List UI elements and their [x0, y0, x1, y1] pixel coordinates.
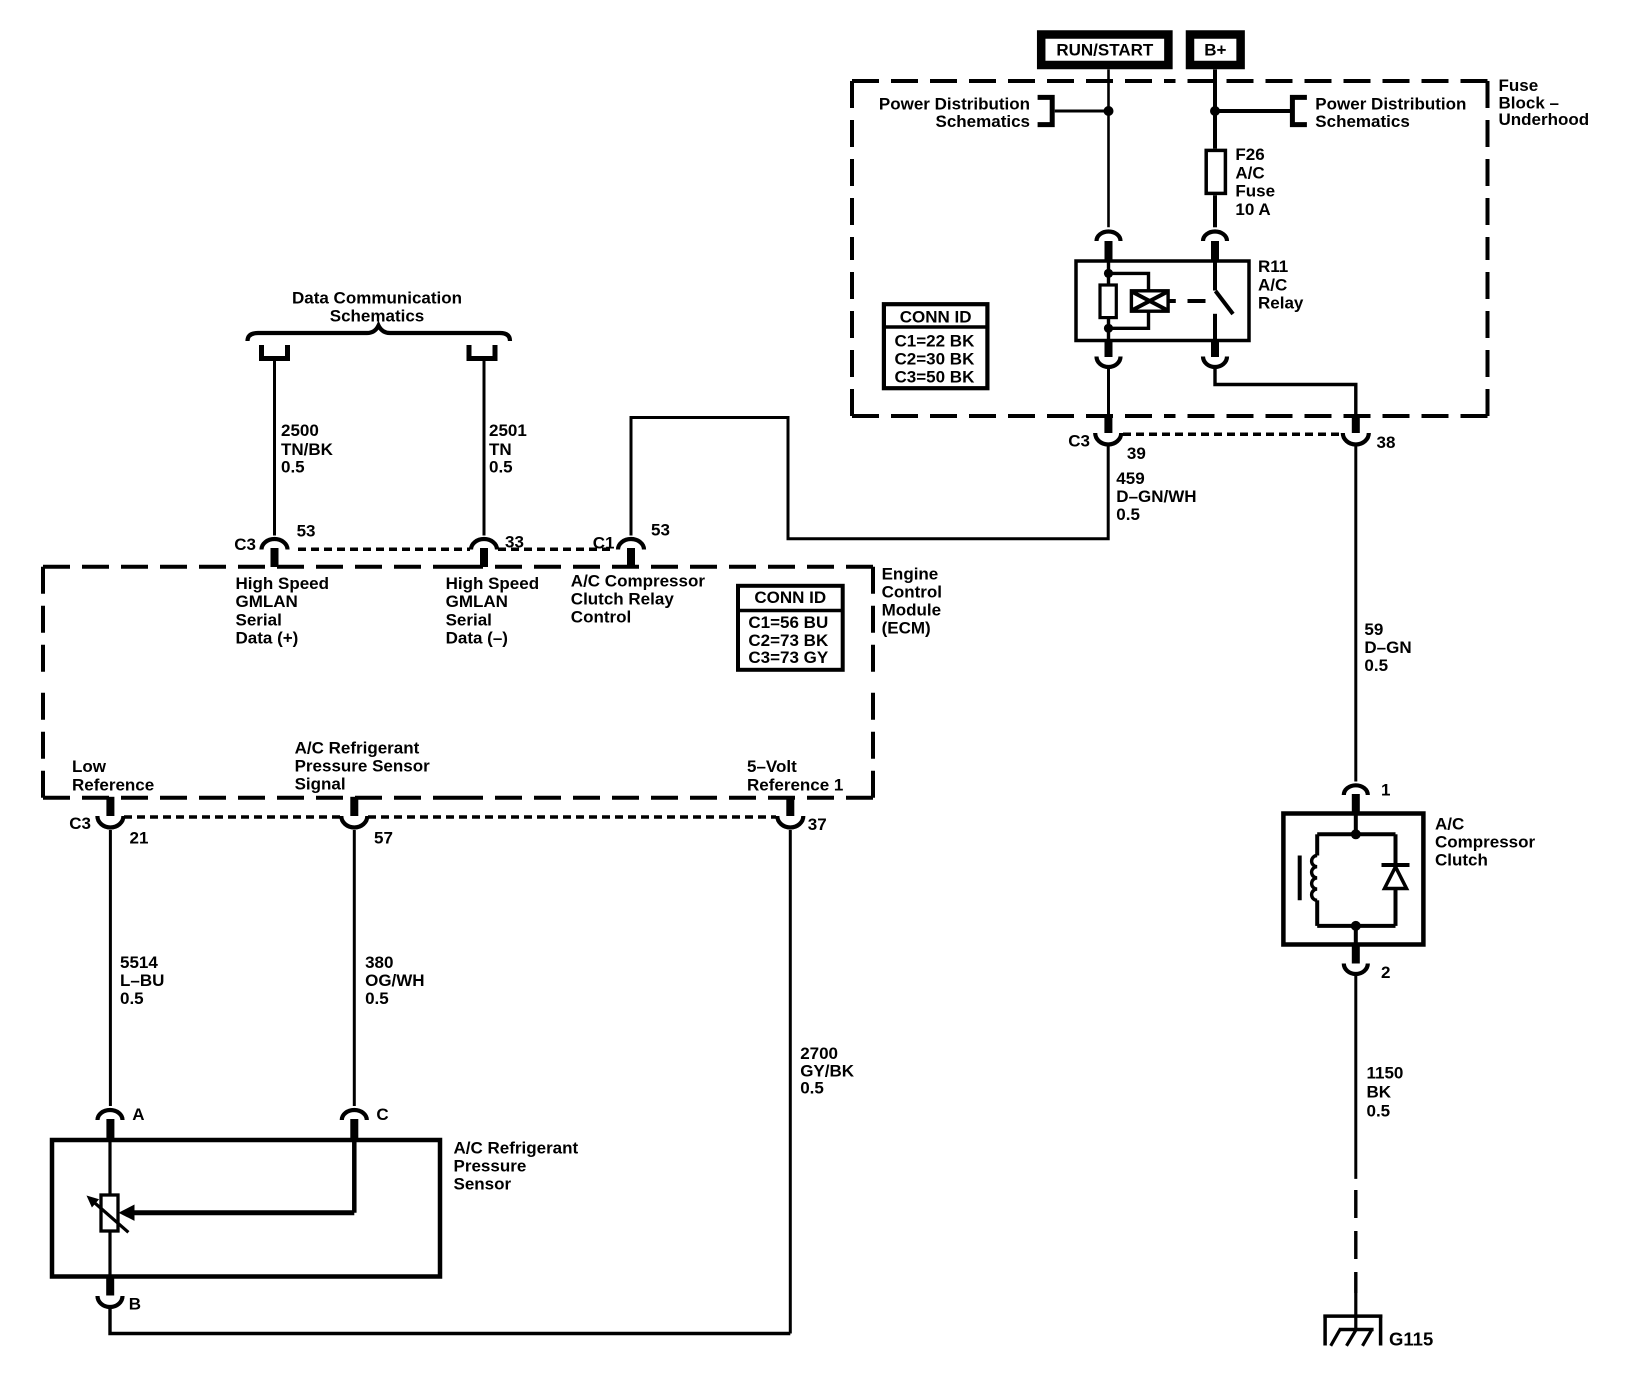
label data communication schematics	[292, 289, 462, 326]
label A/C refrigerant pressure sensor signal	[295, 738, 431, 793]
svg-text:C: C	[376, 1105, 388, 1124]
pin stub C3/39	[1104, 415, 1112, 433]
svg-text:38: 38	[1377, 433, 1396, 452]
pin stub C	[350, 1119, 358, 1141]
svg-text:G115: G115	[1389, 1329, 1433, 1350]
wire clutch top rail	[1317, 832, 1395, 836]
wire coil branch lower	[1315, 900, 1319, 926]
svg-text:53: 53	[651, 520, 670, 539]
svg-text:Reference 1: Reference 1	[747, 775, 843, 794]
connector pin 38 (arc)	[1343, 433, 1369, 445]
wire 1150 dashed section	[1354, 1190, 1357, 1293]
svg-text:B: B	[129, 1294, 141, 1313]
svg-text:33: 33	[505, 532, 524, 551]
wire pin B down and along bottom to 2700 wire	[110, 1309, 790, 1334]
svg-text:BK: BK	[1367, 1082, 1392, 1101]
svg-text:1: 1	[1381, 781, 1390, 800]
pin stub C3/21	[106, 797, 114, 816]
wire fuse to relay pin	[1213, 195, 1217, 227]
wire 380 OG/WH	[353, 830, 356, 1106]
wire clutch bottom rail	[1317, 924, 1395, 928]
wire 2500 TN/BK	[273, 361, 276, 536]
CONN ID table (fuse block)	[884, 304, 988, 388]
svg-text:C1=56 BU: C1=56 BU	[748, 613, 828, 632]
wire clutch internal bottom	[1354, 926, 1358, 945]
svg-text:A: A	[132, 1105, 144, 1124]
wire RUN/START vertical	[1107, 69, 1110, 227]
label wire 380 OG/WH 0.5	[365, 953, 425, 1008]
svg-text:53: 53	[297, 521, 316, 540]
label wire 5514 L-BU 0.5	[120, 953, 164, 1008]
svg-text:Engine: Engine	[882, 564, 939, 583]
label wire 59 D-GN 0.5	[1364, 620, 1411, 675]
svg-text:Pressure Sensor: Pressure Sensor	[295, 756, 431, 775]
wire B+ node to bracket-right	[1215, 109, 1290, 113]
svg-text:Fuse: Fuse	[1499, 76, 1539, 95]
svg-text:0.5: 0.5	[1116, 505, 1140, 524]
svg-text:OG/WH: OG/WH	[365, 971, 425, 990]
svg-text:Data (+): Data (+)	[236, 629, 299, 648]
fuse F26	[1206, 150, 1225, 193]
svg-text:Clutch: Clutch	[1435, 850, 1488, 869]
label high speed gmlan serial data (-)	[446, 574, 540, 648]
off-page reference bracket right (power distribution)	[1292, 97, 1307, 124]
wire diode branch upper	[1394, 834, 1398, 865]
svg-text:Data Communication: Data Communication	[292, 289, 462, 308]
relay switch fixed contact upper	[1213, 261, 1217, 291]
pin stub relay top-right	[1211, 241, 1219, 261]
svg-text:Low: Low	[72, 757, 107, 776]
svg-text:2501: 2501	[489, 421, 527, 440]
svg-text:Power Distribution: Power Distribution	[879, 94, 1030, 113]
connector sensor pin C (arc)	[342, 1110, 367, 1120]
brace (data communication schematics)	[248, 326, 511, 342]
svg-text:0.5: 0.5	[489, 458, 513, 477]
svg-text:Compressor: Compressor	[1435, 832, 1536, 851]
relay coil (box with X)	[1131, 291, 1168, 311]
wire relay bottom-right pin elbow to connector 38	[1215, 369, 1356, 417]
label wire 1150 BK 0.5	[1367, 1064, 1404, 1121]
A/C compressor clutch box	[1283, 814, 1423, 945]
svg-text:Pressure: Pressure	[454, 1156, 527, 1175]
svg-text:Serial: Serial	[446, 610, 492, 629]
svg-text:Fuse: Fuse	[1235, 182, 1275, 201]
connector relay pin bottom-left (arc)	[1097, 357, 1121, 368]
svg-text:Schematics: Schematics	[936, 112, 1031, 131]
wire B+ vertical upper	[1213, 69, 1217, 148]
svg-text:C3=73 GY: C3=73 GY	[748, 648, 829, 667]
connector C3 pin 39 (arc)	[1095, 433, 1121, 445]
node relay coil top junction	[1104, 269, 1113, 278]
svg-text:C1: C1	[593, 533, 615, 552]
connector pin 57 (arc)	[341, 816, 367, 828]
svg-text:High Speed: High Speed	[236, 574, 330, 593]
svg-text:Reference: Reference	[72, 775, 154, 794]
label 5-volt reference 1	[747, 757, 843, 794]
svg-text:D–GN/WH: D–GN/WH	[1116, 487, 1196, 506]
svg-text:CONN ID: CONN ID	[900, 307, 972, 326]
pin stub 38	[1352, 415, 1360, 433]
svg-text:GMLAN: GMLAN	[236, 592, 298, 611]
label low reference	[72, 757, 154, 794]
svg-text:C3: C3	[69, 814, 91, 833]
fuse block underhood dashed border	[852, 81, 1488, 416]
svg-text:A/C: A/C	[1235, 163, 1264, 182]
svg-text:A/C Refrigerant: A/C Refrigerant	[295, 738, 420, 757]
mechanical link dashes coil to switch	[1168, 299, 1205, 303]
svg-text:A/C: A/C	[1435, 814, 1464, 833]
svg-text:0.5: 0.5	[365, 989, 389, 1008]
svg-text:C3: C3	[1068, 432, 1090, 451]
ground G115 symbol	[1323, 1315, 1382, 1346]
pin stub B	[106, 1277, 114, 1296]
wire 5514 L-BU	[109, 830, 112, 1106]
label F26 A/C Fuse 10 A	[1235, 145, 1275, 219]
svg-text:0.5: 0.5	[800, 1079, 824, 1098]
svg-text:Sensor: Sensor	[454, 1174, 512, 1193]
connector relay pin bottom-right (arc)	[1203, 357, 1227, 368]
svg-text:C3=50 BK: C3=50 BK	[895, 368, 976, 387]
connector C1 pin 53 (arc)	[618, 539, 644, 550]
wire 59 vertical 38 to clutch	[1354, 446, 1357, 782]
connector clutch pin 1 (arc)	[1344, 785, 1368, 795]
ECM connector row dotted line (top)	[298, 548, 470, 552]
label wire 2501 TN 0.5	[489, 421, 527, 477]
wire sensor internal pin A to potentiometer	[108, 1141, 111, 1195]
svg-text:RUN/START: RUN/START	[1056, 40, 1154, 59]
svg-text:380: 380	[365, 953, 393, 972]
connector pin 37 (arc)	[777, 816, 803, 828]
wire sensor internal pin C to wiper	[352, 1141, 357, 1213]
clutch coil (inductor)	[1312, 856, 1318, 901]
power feed box RUN/START	[1041, 35, 1168, 66]
wire relay bottom-left pin to C3/39	[1107, 369, 1110, 417]
svg-text:1150: 1150	[1367, 1064, 1404, 1083]
wire 2700 GY/BK	[789, 830, 792, 1334]
svg-text:459: 459	[1116, 469, 1144, 488]
off-page reference bracket left (power distribution)	[1038, 97, 1053, 124]
wire coil branch bottom	[1109, 311, 1149, 328]
label power distribution schematics left	[879, 94, 1030, 131]
svg-text:(ECM): (ECM)	[882, 618, 931, 637]
svg-text:F26: F26	[1235, 145, 1264, 164]
svg-text:2700: 2700	[800, 1044, 838, 1063]
svg-text:Module: Module	[882, 600, 942, 619]
wire 2501 TN	[483, 361, 486, 536]
svg-text:0.5: 0.5	[1367, 1101, 1391, 1120]
relay switch blade	[1216, 291, 1234, 314]
label wire 2700 GY/BK 0.5	[800, 1044, 855, 1098]
svg-text:Relay: Relay	[1258, 294, 1304, 313]
label A/C compressor clutch relay control	[571, 571, 706, 626]
connector relay pin top-left (arc)	[1097, 232, 1121, 242]
svg-text:TN: TN	[489, 440, 512, 459]
connector clutch pin 2 (arc)	[1344, 964, 1368, 975]
ECM dashed border	[43, 567, 873, 798]
power feed box B+	[1190, 35, 1241, 66]
ECM bottom connector row dotted line	[124, 815, 340, 819]
potentiometer (pressure sensing element)	[101, 1195, 118, 1231]
label A/C compressor clutch	[1435, 814, 1536, 869]
svg-text:Underhood: Underhood	[1499, 110, 1590, 129]
svg-text:5–Volt: 5–Volt	[747, 757, 797, 776]
wire sensor internal potentiometer to pin B	[108, 1231, 111, 1277]
svg-text:5514: 5514	[120, 953, 158, 972]
svg-text:L–BU: L–BU	[120, 971, 164, 990]
A/C refrigerant pressure sensor box	[52, 1140, 440, 1277]
fuse block label	[1499, 76, 1590, 129]
svg-text:CONN ID: CONN ID	[754, 588, 826, 607]
connector C3 pin 21 (arc)	[97, 816, 123, 828]
connector pin 33 (arc)	[471, 539, 497, 550]
pin stub 37	[786, 797, 794, 816]
label A/C refrigerant pressure sensor	[454, 1138, 579, 1193]
relay switch fixed contact lower	[1213, 314, 1217, 341]
svg-text:21: 21	[130, 828, 149, 847]
node clutch bottom junction	[1351, 921, 1361, 931]
wire relay coil left leg	[1107, 261, 1110, 285]
label engine control module (ECM)	[882, 564, 942, 637]
svg-text:Power Distribution: Power Distribution	[1315, 94, 1466, 113]
svg-text:0.5: 0.5	[281, 458, 305, 477]
svg-text:Serial: Serial	[236, 610, 282, 629]
node clutch top junction	[1351, 829, 1361, 839]
svg-text:Signal: Signal	[295, 774, 346, 793]
wire 1150 to ground	[1354, 1293, 1357, 1330]
svg-text:GMLAN: GMLAN	[446, 592, 508, 611]
connector relay pin top-right (arc)	[1203, 232, 1227, 242]
svg-text:Data (–): Data (–)	[446, 629, 508, 648]
resistor (relay parallel resistor)	[1100, 285, 1116, 318]
label power distribution schematics right	[1315, 94, 1466, 131]
svg-text:D–GN: D–GN	[1364, 638, 1411, 657]
svg-text:A/C Compressor: A/C Compressor	[571, 571, 706, 590]
svg-text:Control: Control	[571, 607, 631, 626]
wire diode branch lower	[1394, 889, 1398, 926]
svg-text:2: 2	[1381, 963, 1390, 982]
svg-text:R11: R11	[1258, 257, 1288, 276]
diode triangle	[1385, 867, 1407, 889]
wire bracket-left to RUN/START node	[1055, 110, 1109, 113]
svg-text:37: 37	[808, 815, 827, 834]
pin stub A	[106, 1119, 114, 1141]
diode (clutch suppression) cathode bar	[1382, 863, 1410, 867]
pin stub clutch 1	[1352, 794, 1360, 814]
node junction RUN/START	[1104, 106, 1114, 116]
svg-text:0.5: 0.5	[1364, 656, 1388, 675]
svg-text:2500: 2500	[281, 421, 319, 440]
connector C3 pin 53 (arc)	[262, 539, 288, 550]
svg-text:57: 57	[374, 828, 393, 847]
svg-text:10 A: 10 A	[1235, 200, 1270, 219]
pin stub C1/53	[627, 548, 635, 567]
node junction B+	[1210, 106, 1220, 116]
wire clutch internal top	[1354, 814, 1358, 835]
CONN ID table (ECM)	[738, 586, 843, 670]
svg-text:Clutch Relay: Clutch Relay	[571, 589, 675, 608]
pin stub relay bottom-right	[1211, 341, 1219, 358]
svg-text:B+: B+	[1204, 40, 1226, 59]
svg-text:39: 39	[1127, 444, 1146, 463]
wire coil branch upper	[1315, 834, 1319, 855]
pin stub 57	[350, 797, 358, 816]
svg-text:A/C: A/C	[1258, 275, 1287, 294]
svg-text:Schematics: Schematics	[1315, 112, 1410, 131]
off-page connector bracket left (serial data +)	[262, 345, 288, 359]
pin stub relay top-left	[1105, 241, 1113, 261]
wire 1150 BK solid	[1354, 976, 1357, 1179]
pin stub C3/53	[271, 548, 279, 567]
svg-text:0.5: 0.5	[120, 989, 144, 1008]
connector row dotted line C3/39 to 38	[1123, 433, 1342, 437]
potentiometer diagonal arrow	[92, 1201, 128, 1233]
pin stub clutch 2	[1352, 945, 1360, 964]
svg-text:A/C Refrigerant: A/C Refrigerant	[454, 1138, 579, 1157]
relay R11 box	[1076, 261, 1249, 341]
label wire 2500 TN/BK 0.5	[281, 421, 334, 477]
wire 459 D-GN/WH route to ECM C1/53	[631, 418, 1108, 539]
svg-text:C1=22 BK: C1=22 BK	[895, 332, 976, 351]
wire coil branch top	[1109, 273, 1149, 290]
svg-text:TN/BK: TN/BK	[281, 440, 334, 459]
svg-text:59: 59	[1364, 620, 1383, 639]
off-page connector bracket right (serial data -)	[469, 345, 495, 359]
connector sensor pin B (arc)	[98, 1296, 123, 1307]
svg-text:High Speed: High Speed	[446, 574, 540, 593]
clutch plate bar	[1298, 856, 1302, 901]
label high speed gmlan serial data (+)	[236, 574, 330, 648]
connector sensor pin A (arc)	[98, 1110, 123, 1120]
label wire 459 D-GN/WH 0.5	[1116, 469, 1196, 524]
svg-text:Control: Control	[882, 582, 942, 601]
label R11 A/C Relay	[1258, 257, 1304, 312]
pin stub relay bottom-left	[1105, 341, 1113, 358]
svg-text:Schematics: Schematics	[330, 307, 425, 326]
wiper arm wire with arrowhead	[134, 1210, 355, 1215]
svg-text:C2=30 BK: C2=30 BK	[895, 350, 976, 369]
pin stub 33	[480, 548, 488, 567]
node relay coil bottom junction	[1104, 324, 1113, 333]
svg-text:C3: C3	[234, 535, 256, 554]
